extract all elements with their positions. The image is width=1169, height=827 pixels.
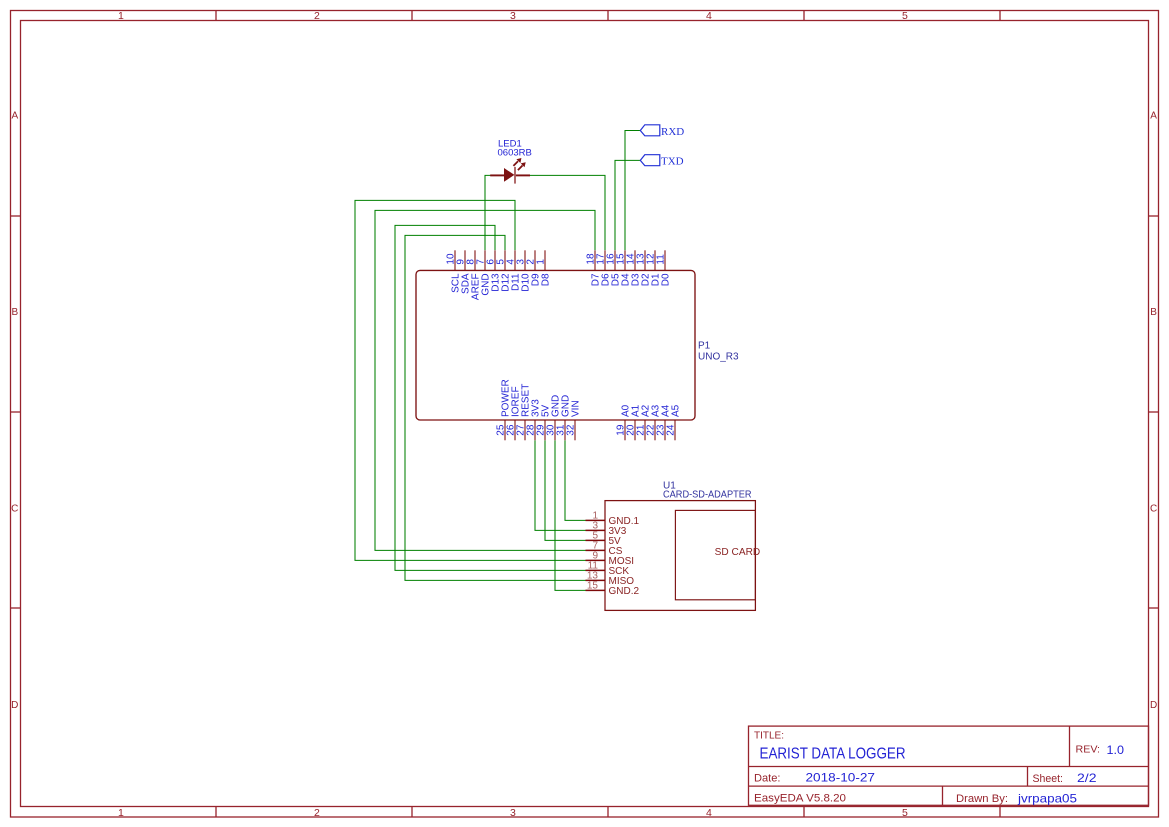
wire 5V (P1 pin29) to SD 5V: [545, 440, 586, 540]
P1 pin 14 D3 (top): [626, 250, 642, 286]
P1 pin 4 D11 (top): [506, 250, 522, 291]
svg-text:2/2: 2/2: [1077, 771, 1097, 785]
P1 pin 23 A4 (bottom): [656, 404, 672, 440]
svg-text:GND.2: GND.2: [609, 586, 640, 597]
P1 pin 24 A5 (bottom): [666, 404, 682, 440]
U1 pin 3 3V3: [586, 520, 627, 537]
U1 pin 7 CS: [586, 540, 623, 557]
svg-text:B: B: [1150, 307, 1157, 318]
LED1 triangle: [504, 168, 514, 182]
P1 pin 16 D5 (top): [606, 250, 622, 286]
P1 pin 30 GND (bottom): [546, 395, 562, 441]
P1 pin 9 SDA (top): [456, 250, 472, 294]
svg-text:UNO_R3: UNO_R3: [698, 352, 739, 363]
U1 pin 5 5V: [586, 530, 622, 547]
P1 pin 21 A2 (bottom): [636, 404, 652, 440]
P1 pin 1 D8 (top): [536, 250, 552, 286]
svg-text:P1: P1: [698, 341, 711, 352]
svg-text:A: A: [11, 110, 18, 121]
wire D7 (P1 pin18) to SD CS: [375, 210, 595, 550]
P1 pin 17 D6 (top): [596, 250, 612, 286]
P1 pin 13 D2 (top): [636, 250, 652, 286]
LED LED1 0603RB: [490, 139, 532, 184]
P1 pin 32 VIN (bottom): [566, 400, 582, 440]
svg-text:3: 3: [510, 10, 516, 22]
wire 3V3 (P1 pin28) to SD 3V3: [535, 440, 586, 530]
LED1 refdes and value labels: [498, 139, 532, 159]
P1 pin 8 AREF (top): [466, 250, 482, 300]
LED1 emission arrows: [513, 158, 525, 170]
svg-text:1: 1: [536, 259, 547, 265]
svg-text:4: 4: [706, 10, 712, 22]
svg-text:CARD-SD-ADAPTER: CARD-SD-ADAPTER: [663, 490, 752, 501]
P1 pin 12 D1 (top): [646, 250, 662, 286]
P1 body: [416, 270, 695, 420]
svg-text:B: B: [11, 307, 18, 318]
U1 pin 11 SCK: [586, 560, 630, 577]
P1 pin 25 POWER (bottom): [496, 379, 512, 440]
U1 pin 15 GND.2: [586, 580, 640, 597]
wire D12 (P1 pin5) to SD MISO: [405, 235, 586, 580]
svg-text:Drawn By:: Drawn By:: [956, 793, 1008, 805]
svg-text:5: 5: [902, 807, 908, 819]
svg-text:REV:: REV:: [1076, 744, 1101, 756]
P1 pin 15 D4 (top): [616, 250, 632, 286]
title block: [749, 726, 1149, 805]
U1 pin 9 MOSI: [586, 550, 635, 567]
wire GND (P1 pin31) to SD GND.1: [565, 440, 586, 520]
svg-text:D: D: [11, 700, 18, 711]
svg-text:2: 2: [314, 10, 320, 22]
P1 pin 5 D12 (top): [496, 250, 512, 291]
P1 pin 28 3V3 (bottom): [526, 399, 542, 441]
svg-text:1.0: 1.0: [1107, 743, 1125, 757]
svg-text:0603RB: 0603RB: [498, 148, 532, 159]
svg-text:1: 1: [118, 807, 124, 819]
IC P1 UNO_R3: [416, 250, 739, 440]
svg-text:D8: D8: [540, 273, 551, 286]
svg-text:jvrpapa05: jvrpapa05: [1017, 792, 1077, 806]
svg-text:2: 2: [314, 807, 320, 819]
svg-text:3: 3: [510, 807, 516, 819]
svg-text:Sheet:: Sheet:: [1033, 773, 1064, 785]
P1 pin 11 D0 (top): [656, 250, 672, 286]
LED1 cathode bar: [514, 167, 516, 184]
P1 pin 2 D9 (top): [526, 250, 542, 286]
wire GND (P1 pin30) to SD GND.2: [555, 440, 586, 590]
svg-text:SD CARD: SD CARD: [715, 547, 761, 558]
P1 pin 31 GND (bottom): [556, 395, 572, 441]
IC U1 CARD-SD-ADAPTER: [586, 481, 761, 611]
svg-text:D0: D0: [660, 273, 671, 286]
P1 pin 29 5V (bottom): [536, 404, 552, 440]
P1 pin 18 D7 (top): [586, 250, 602, 286]
svg-text:32: 32: [566, 424, 577, 436]
svg-text:2018-10-27: 2018-10-27: [806, 771, 876, 785]
wire TXD flag to D5 (P1 pin16): [615, 160, 641, 250]
U1 refdes and value labels: [663, 481, 752, 501]
svg-text:1: 1: [118, 10, 124, 22]
svg-text:15: 15: [587, 580, 599, 591]
svg-text:Date:: Date:: [754, 773, 781, 785]
svg-text:24: 24: [666, 424, 677, 436]
svg-text:RXD: RXD: [661, 126, 684, 138]
svg-text:C: C: [11, 503, 18, 514]
svg-text:TITLE:: TITLE:: [754, 731, 784, 742]
svg-text:VIN: VIN: [570, 400, 581, 417]
U1 pin 1 GND.1: [586, 510, 640, 527]
svg-text:A: A: [1150, 110, 1157, 121]
P1 pin 7 GND (top): [476, 250, 492, 295]
wire D13 (P1 pin6) to SD SCK: [395, 225, 586, 570]
P1 pin 26 IOREF (bottom): [506, 386, 522, 440]
LED1 cathode lead: [516, 174, 530, 176]
wire LED1 cathode to D6 (P1 pin17): [530, 175, 605, 250]
wire RXD flag to D4 (P1 pin15): [625, 131, 641, 251]
svg-text:TXD: TXD: [661, 156, 684, 168]
U1 SD CARD socket box: [675, 510, 755, 599]
net flag TXD: [640, 155, 683, 168]
P1 refdes and value labels: [698, 341, 739, 363]
P1 pin 22 A3 (bottom): [646, 404, 662, 440]
LED1 anode lead: [490, 174, 504, 176]
P1 pin 6 D13 (top): [486, 250, 502, 291]
svg-text:11: 11: [656, 254, 667, 265]
wire GND (P1 pin7) to LED1 anode: [485, 175, 491, 250]
svg-text:EasyEDA V5.8.20: EasyEDA V5.8.20: [754, 793, 846, 805]
svg-text:EARIST DATA LOGGER: EARIST DATA LOGGER: [760, 745, 906, 762]
svg-text:D: D: [1150, 700, 1157, 711]
wire D11 (P1 pin4) to SD MOSI: [355, 200, 586, 560]
svg-text:C: C: [1150, 503, 1157, 514]
U1 pin 13 MISO: [586, 570, 635, 587]
svg-text:4: 4: [706, 807, 712, 819]
P1 pin 19 A0 (bottom): [616, 404, 632, 440]
P1 pin 10 SCL (top): [446, 250, 462, 293]
P1 pin 20 A1 (bottom): [626, 404, 642, 440]
U1 body: [605, 501, 755, 611]
net flag RXD: [640, 125, 684, 138]
P1 pin 27 RESET (bottom): [516, 384, 532, 441]
svg-text:5: 5: [902, 10, 908, 22]
P1 pin 3 D10 (top): [516, 250, 532, 291]
svg-text:A5: A5: [670, 404, 681, 417]
